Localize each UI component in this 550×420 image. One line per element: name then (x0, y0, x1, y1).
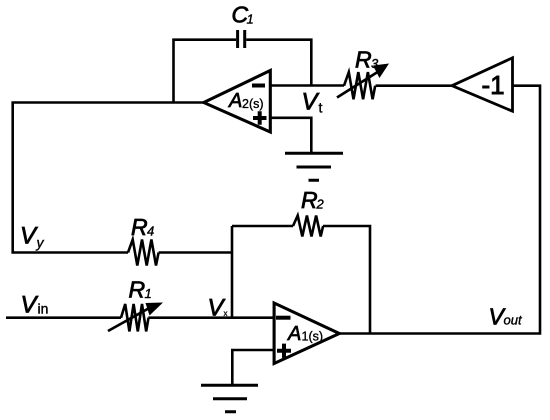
label Vy (20, 223, 45, 251)
label A2(s) (228, 90, 264, 112)
op-amp A2 triangle (204, 71, 271, 133)
wire A2 output to left vertical down to Vy line (13, 103, 204, 253)
wire R2 loop right leg down to output (323, 226, 370, 334)
label A1(s) (287, 323, 323, 345)
wire R3 to -1 block apex (376, 84, 453, 87)
label Vx (208, 294, 228, 321)
A1 minus pin symbol (276, 316, 291, 320)
resistor R2 (293, 216, 323, 237)
ground below A1 (201, 385, 258, 411)
wire C1 loop right side down to minus line (246, 40, 311, 86)
label R2 (301, 187, 325, 213)
label R4 (131, 214, 154, 240)
svg-text:A: A (228, 90, 242, 112)
node vertical x=232 (231, 226, 234, 318)
svg-text:R: R (129, 277, 146, 303)
wire A1 output up right to -1 block (339, 86, 540, 334)
svg-text:V: V (21, 292, 39, 319)
svg-text:t: t (319, 100, 323, 116)
svg-text:in: in (38, 301, 49, 317)
svg-text:-1: -1 (482, 70, 505, 100)
svg-text:1(s): 1(s) (302, 330, 324, 344)
wire Vin to R1 (6, 316, 121, 319)
R3 arrow line (337, 71, 380, 98)
svg-text:2(s): 2(s) (242, 97, 264, 111)
wire A1 plus input down to ground (232, 350, 274, 385)
R1 arrowhead (146, 303, 164, 316)
R1 arrow line (108, 307, 152, 332)
label Vout (489, 304, 523, 330)
svg-text:1: 1 (145, 286, 152, 301)
label Vin (21, 292, 49, 319)
resistor R3 (344, 72, 375, 99)
svg-text:1: 1 (247, 11, 254, 26)
label R1 (129, 277, 152, 303)
svg-text:V: V (302, 88, 320, 115)
wire Vy line from R4 to node x=232 (159, 251, 232, 254)
gain block -1 triangle (452, 58, 513, 111)
label R3 (355, 46, 379, 72)
svg-text:R: R (131, 214, 148, 240)
svg-text:2: 2 (316, 197, 325, 212)
resistor R4 (128, 240, 159, 266)
svg-text:y: y (36, 235, 45, 251)
wire C1 loop left side (174, 40, 237, 103)
A2 minus pin symbol (252, 84, 265, 88)
svg-text:V: V (20, 223, 38, 250)
label Vt (302, 88, 323, 115)
wire R1 to A1 minus input (148, 316, 274, 319)
svg-text:R: R (301, 187, 318, 213)
svg-text:3: 3 (371, 56, 379, 71)
svg-text:x: x (224, 309, 228, 318)
resistor R1 (121, 304, 148, 331)
wire A2 plus input down to ground (270, 118, 311, 152)
svg-text:R: R (355, 46, 372, 72)
op-amp A1 triangle (274, 303, 339, 364)
svg-text:4: 4 (147, 224, 154, 239)
capacitor C1 plates (238, 30, 245, 48)
label C1 (232, 2, 254, 28)
wire R2 loop top left (232, 225, 293, 228)
ground below A2 (285, 153, 343, 180)
svg-text:A: A (287, 323, 301, 345)
R3 arrowhead (373, 64, 389, 79)
svg-text:out: out (504, 312, 523, 327)
A1 plus pin symbol (277, 344, 291, 358)
A2 plus pin symbol (253, 111, 267, 124)
wire A2 minus input to R3 (270, 84, 344, 87)
